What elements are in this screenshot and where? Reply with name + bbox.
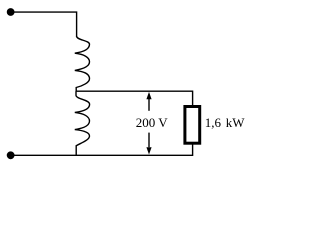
wire tap: coil tap to resistor top	[76, 91, 193, 105]
terminal bottom-left	[7, 151, 15, 159]
voltage arrow up shaft	[148, 99, 150, 111]
wire top: terminal to coil top	[11, 12, 77, 37]
voltage arrow down shaft	[148, 133, 150, 148]
inductor lower winding L1b	[75, 91, 90, 155]
terminal top-left	[7, 8, 15, 16]
voltage arrow up head	[146, 92, 151, 99]
resistor R load	[185, 107, 200, 144]
inductor upper winding L1a	[75, 36, 90, 91]
svg-text:1,6 kW: 1,6 kW	[205, 115, 246, 130]
svg-text:200 V: 200 V	[136, 115, 169, 130]
voltage arrow down head	[146, 147, 151, 154]
wire bottom: terminal to resistor bottom	[11, 145, 193, 156]
